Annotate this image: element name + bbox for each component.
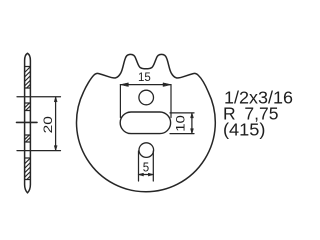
svg-text:10: 10 bbox=[174, 115, 187, 132]
front view: upper bolt hole circle bbox=[139, 90, 154, 105]
svg-text:15: 15 bbox=[138, 72, 151, 84]
front view: lower bolt hole circle bbox=[139, 143, 154, 158]
dimension 10: dimension line with arrows bbox=[191, 113, 194, 134]
side view: sprocket cross-section bar outline bbox=[25, 53, 31, 193]
side view: section boundary lines across bar bbox=[25, 67, 31, 180]
dimension 15: value label bbox=[138, 72, 151, 84]
side view: hatching upper rim block bbox=[25, 67, 31, 88]
annotation: radius label R 7,75 bbox=[223, 104, 278, 124]
svg-text:(415): (415) bbox=[223, 120, 266, 140]
side view: centre line across bar bbox=[17, 121, 38, 123]
front view: central slot (rounded rectangle, drawn over rectangle) bbox=[120, 112, 170, 134]
dimension 5: extension lines tangent to lower hole bbox=[139, 151, 154, 181]
annotation: chain size label 1/2x3/16 bbox=[224, 87, 293, 107]
dimension 20: value label bbox=[42, 116, 55, 134]
front view: key rectangle sides bbox=[120, 85, 171, 118]
dimension 5: dimension line with arrows bbox=[139, 173, 154, 176]
svg-text:20: 20 bbox=[42, 116, 55, 134]
dimension 10: value label bbox=[174, 115, 187, 132]
side view: hatching lower rim block bbox=[25, 158, 31, 180]
svg-text:5: 5 bbox=[143, 160, 150, 175]
dimension 20: dimension line with arrows bbox=[54, 97, 57, 151]
dimension 15: top edge of key rectangle doubling as dimension line, arrows at corners bbox=[120, 83, 171, 87]
dimension 5: value label bbox=[143, 160, 150, 175]
front view: sprocket body circle with tooth profile on top bbox=[77, 54, 216, 191]
dimension 20: extension lines bbox=[17, 97, 61, 151]
dimension 10: extension lines from slot top and bottom bbox=[170, 113, 194, 134]
side view: hatching lower hub block bbox=[25, 135, 31, 142]
side view: hatching upper hub block bbox=[25, 103, 31, 110]
annotation: chain type label (415) bbox=[223, 120, 266, 140]
